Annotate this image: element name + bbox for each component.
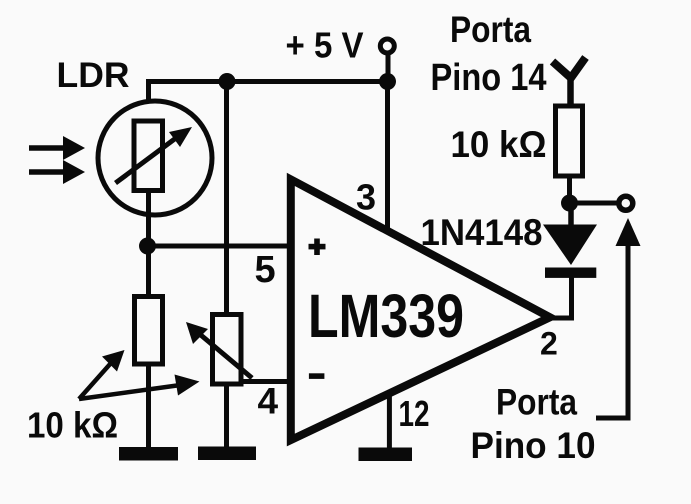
terminal output open circle: [619, 196, 633, 210]
node A junction dot: [139, 238, 156, 255]
wire: pin 12 to ground: [387, 391, 392, 449]
wire: rail to LDR top: [146, 79, 151, 120]
resistor R2 10k: [556, 106, 583, 176]
arrow: from porta pino 10 up to terminal: [596, 218, 641, 421]
diode D1 1N4148: [543, 201, 597, 278]
label 1N4148: [421, 212, 543, 253]
wire: trimpot bottom to ground: [224, 387, 229, 450]
photoresistor LDR: [98, 101, 212, 215]
terminal +5V open circle: [380, 39, 394, 82]
svg-text:12: 12: [399, 393, 430, 434]
wire: rail down to trimpot: [224, 82, 229, 315]
svg-text:1N4148: 1N4148: [421, 212, 543, 253]
wire: LDR bottom to node A: [146, 193, 151, 248]
junction: rail and trimpot column: [219, 73, 236, 90]
ground: R1: [119, 447, 178, 461]
label - input: [309, 373, 325, 379]
label Pino 14: [431, 57, 547, 99]
pin label 5: [255, 249, 276, 291]
pin label 2: [540, 326, 558, 362]
svg-text:4: 4: [258, 381, 279, 422]
label 10 kOhm (left): [27, 405, 118, 446]
ground: trimpot: [198, 447, 256, 461]
label Porta (bottom): [496, 382, 577, 423]
ground: pin 12: [359, 448, 413, 462]
wire: R1 to ground: [146, 367, 151, 450]
wire: junction to output terminal: [570, 201, 618, 206]
svg-text:LM339: LM339: [308, 282, 464, 351]
wire: node A down to R1: [146, 246, 151, 296]
antenna symbol: porta pino 14: [553, 58, 586, 105]
svg-text:10 kΩ: 10 kΩ: [27, 405, 118, 446]
pin label 12: [399, 393, 430, 434]
label Pino 10: [471, 425, 596, 466]
label 10 kOhm (right): [451, 124, 547, 165]
label + input: [309, 239, 326, 256]
svg-text:Porta: Porta: [496, 382, 577, 423]
label LDR: [57, 56, 130, 95]
svg-text:3: 3: [356, 177, 376, 218]
wire: trimpot to - input (pin 4): [244, 379, 289, 384]
light arrow 2: [29, 160, 85, 184]
svg-text:Porta: Porta: [450, 9, 531, 50]
label LM339: [308, 282, 464, 351]
wire: +5V top rail: [146, 79, 388, 84]
pin label 3: [356, 177, 376, 218]
light arrow 1: [29, 136, 85, 160]
svg-text:Pino 10: Pino 10: [471, 425, 596, 466]
wire: junction to R2: [567, 178, 572, 203]
trimpot P1 10k: [186, 315, 252, 385]
op-amp U1 LM339 triangle: [291, 179, 550, 440]
svg-text:+ 5 V: + 5 V: [286, 25, 364, 66]
pin label 4: [258, 381, 279, 422]
label Porta (top): [450, 9, 531, 50]
svg-text:5: 5: [255, 249, 276, 291]
junction: rail and pin3 wire: [379, 73, 396, 90]
pointer arrow A to R1: [79, 350, 125, 399]
resistor R1 10k: [135, 297, 163, 365]
pointer arrow B to trimpot: [79, 375, 200, 400]
junction: diode / R2 / terminal: [561, 195, 578, 212]
svg-text:10 kΩ: 10 kΩ: [451, 124, 547, 165]
svg-text:2: 2: [540, 326, 558, 362]
svg-text:LDR: LDR: [57, 56, 130, 95]
wire: output pin 2: [548, 272, 574, 321]
wire: pin 3 to rail: [385, 82, 390, 234]
wire: node A to + input (pin 5): [148, 244, 289, 249]
svg-text:Pino 14: Pino 14: [431, 57, 547, 99]
label +5V: [286, 25, 364, 66]
